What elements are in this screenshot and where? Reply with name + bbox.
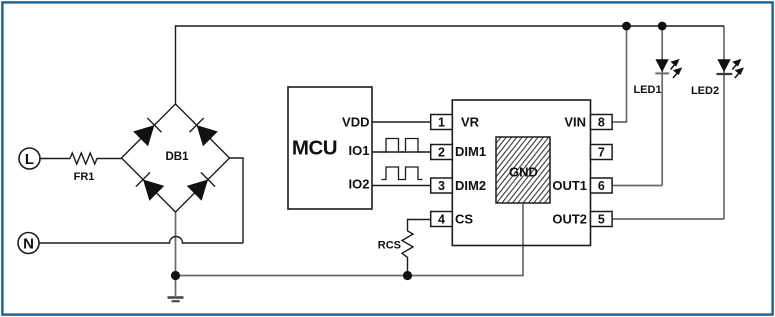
svg-text:VIN: VIN: [564, 115, 586, 130]
svg-text:N: N: [23, 236, 34, 253]
svg-text:5: 5: [598, 213, 605, 227]
svg-text:LED1: LED1: [633, 84, 661, 96]
svg-text:2: 2: [438, 146, 445, 160]
svg-text:CS: CS: [455, 212, 473, 227]
svg-text:6: 6: [598, 179, 605, 193]
svg-text:IO2: IO2: [349, 177, 370, 192]
svg-text:L: L: [25, 151, 34, 168]
svg-text:OUT2: OUT2: [552, 212, 587, 227]
svg-text:3: 3: [438, 179, 445, 193]
svg-text:7: 7: [598, 146, 605, 160]
svg-text:VDD: VDD: [342, 115, 369, 130]
svg-text:DIM2: DIM2: [455, 178, 486, 193]
svg-text:4: 4: [438, 213, 445, 227]
svg-text:DIM1: DIM1: [455, 144, 486, 159]
svg-text:GND: GND: [509, 164, 538, 179]
svg-text:1: 1: [438, 116, 445, 130]
svg-text:OUT1: OUT1: [552, 178, 587, 193]
svg-text:LED2: LED2: [691, 85, 719, 97]
svg-text:DB1: DB1: [165, 151, 189, 163]
svg-text:MCU: MCU: [292, 137, 337, 160]
svg-text:8: 8: [598, 116, 605, 130]
svg-text:IO1: IO1: [349, 143, 370, 158]
svg-text:RCS: RCS: [378, 240, 401, 252]
svg-text:FR1: FR1: [74, 171, 95, 183]
svg-text:VR: VR: [461, 115, 480, 130]
